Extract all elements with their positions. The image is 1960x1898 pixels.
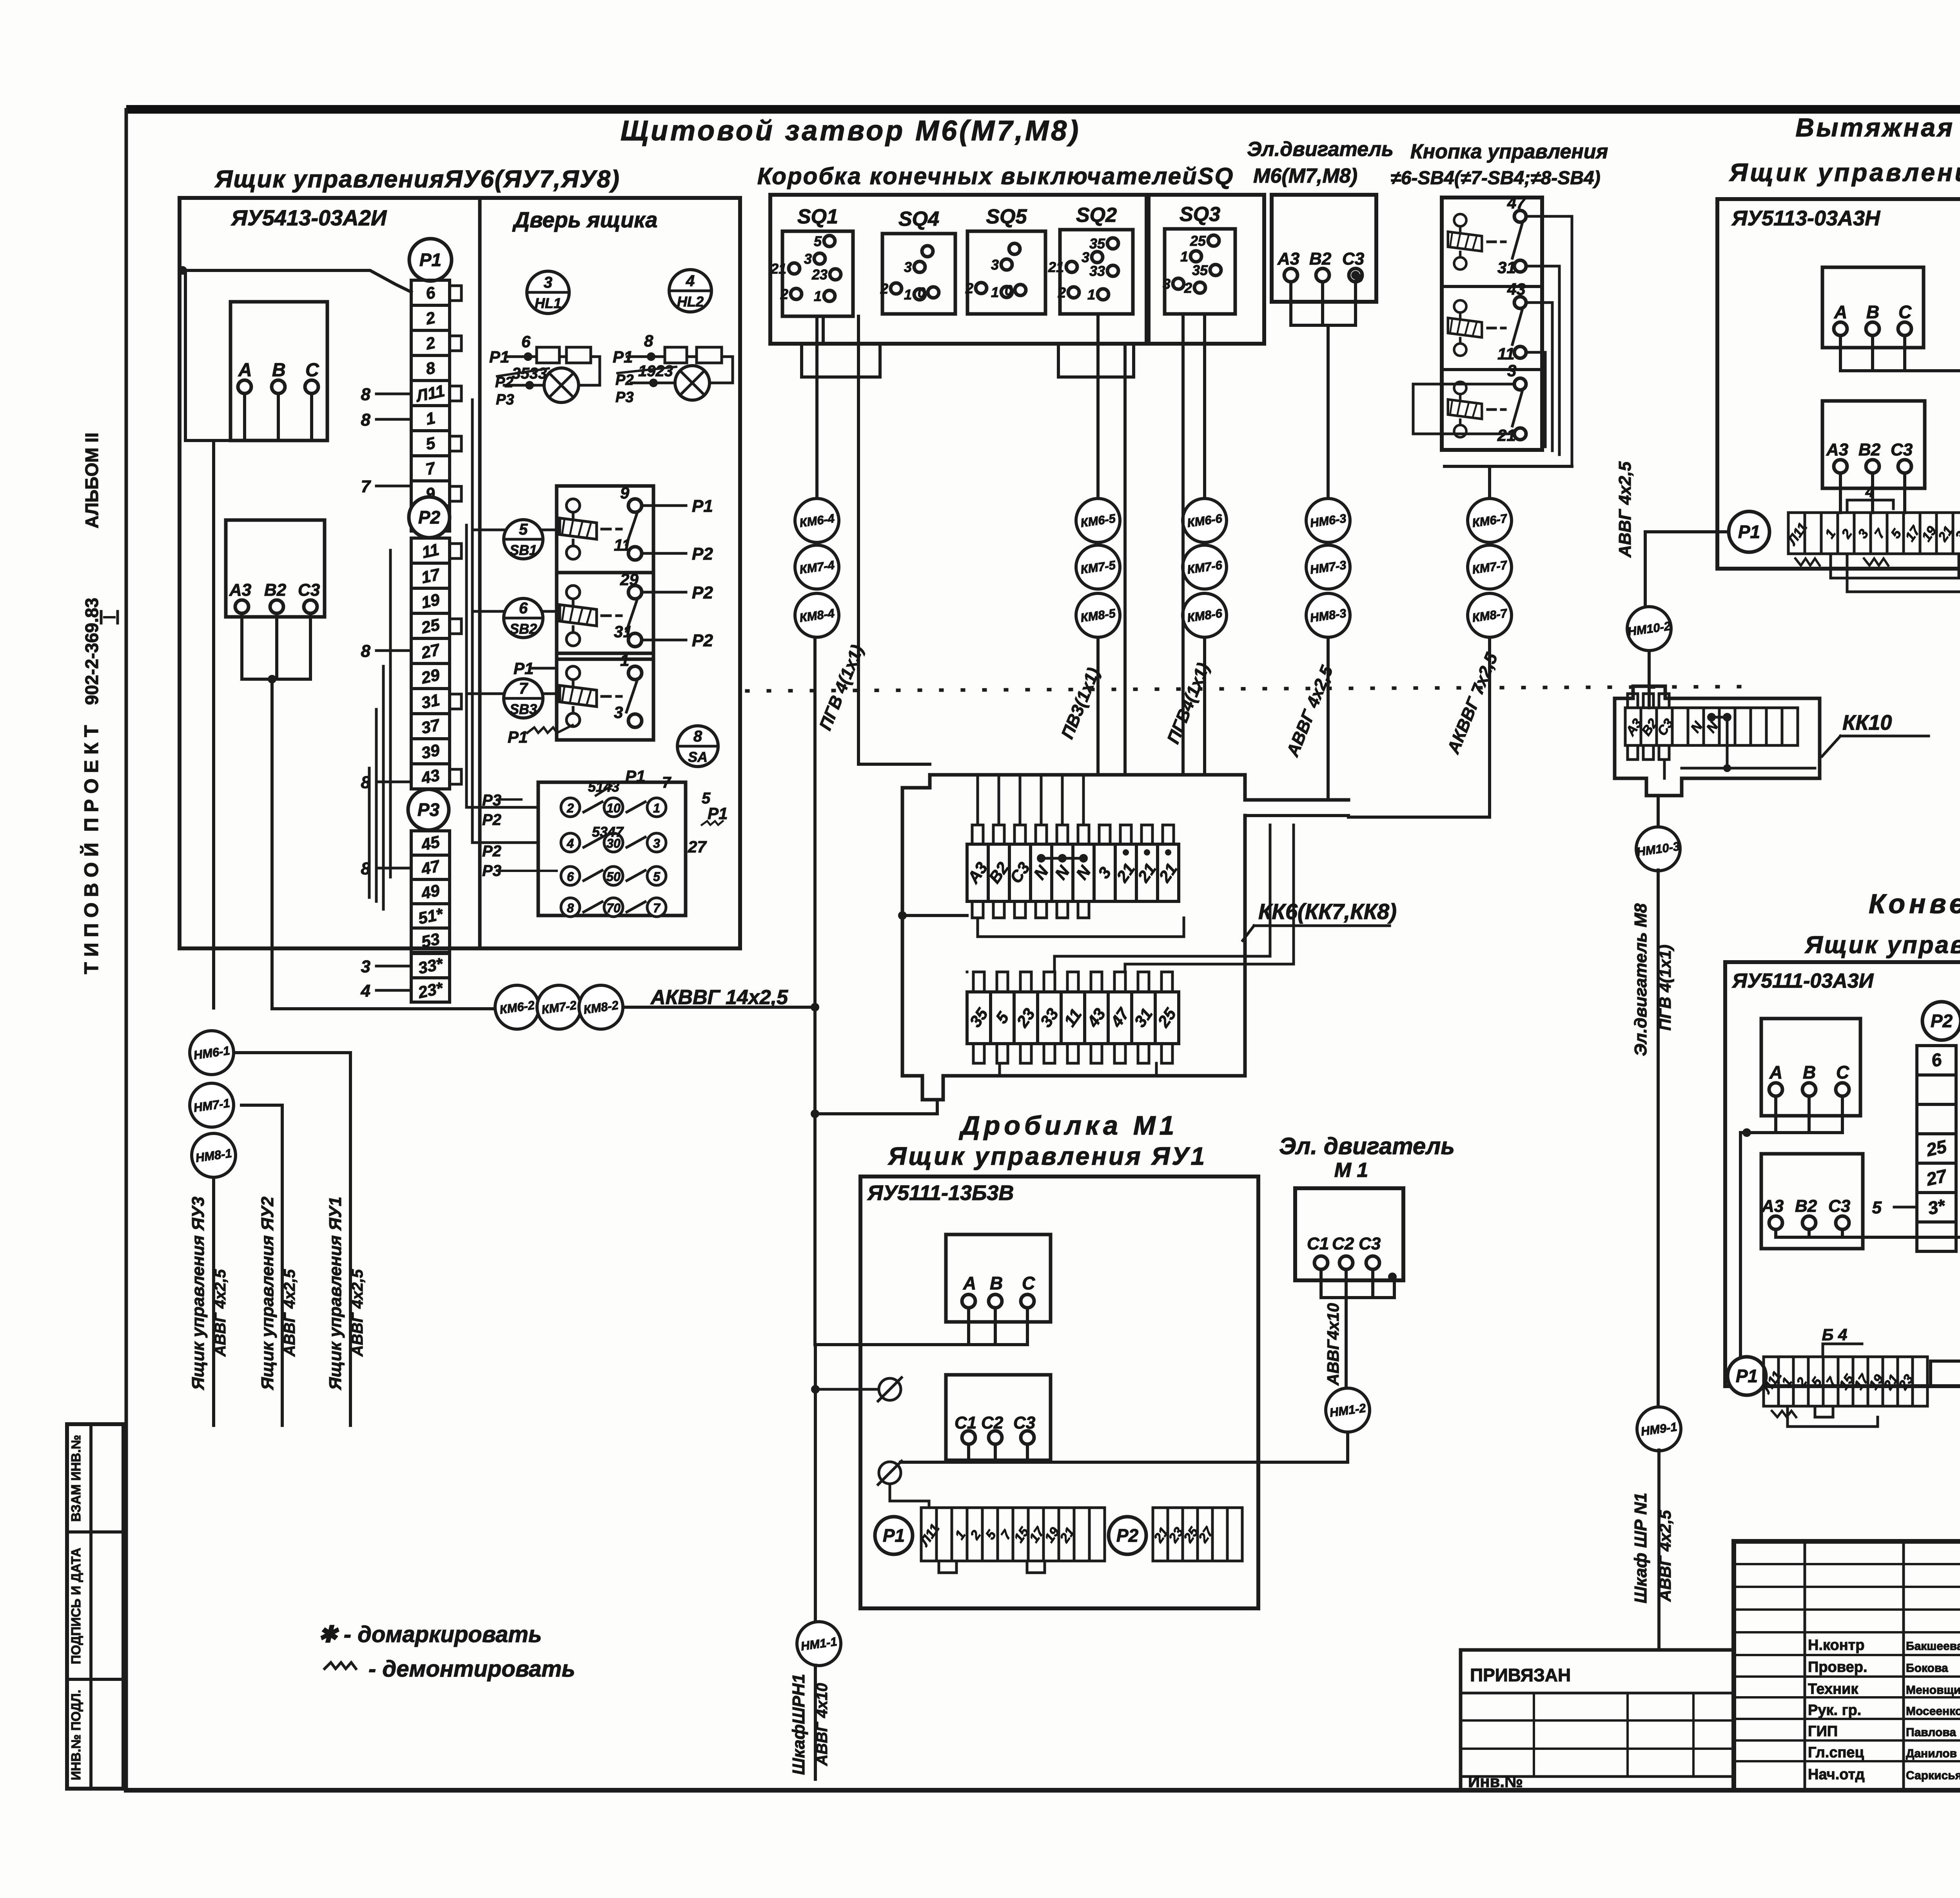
svg-text:ЯУ5113-03А3Н: ЯУ5113-03А3Н <box>1731 207 1880 230</box>
svg-text:2: 2 <box>1058 285 1066 301</box>
svg-text:Шкаф ШР N1: Шкаф ШР N1 <box>1631 1493 1650 1603</box>
svg-text:33: 33 <box>1089 263 1105 279</box>
svg-text:Р2: Р2 <box>418 507 441 528</box>
svg-text:Н.контр: Н.контр <box>1808 1637 1865 1653</box>
svg-text:4: 4 <box>1865 483 1874 500</box>
svg-text:1: 1 <box>653 801 660 815</box>
svg-text:3: 3 <box>991 257 999 273</box>
svg-text:8: 8 <box>361 642 371 661</box>
svg-text:ГИП: ГИП <box>1808 1723 1838 1740</box>
svg-text:Бокова: Бокова <box>1906 1662 1948 1675</box>
svg-text:Ящик управления ЯУ1: Ящик управления ЯУ1 <box>326 1196 345 1390</box>
svg-text:Щитовой затвор М6(М7,М8): Щитовой затвор М6(М7,М8) <box>621 115 1081 147</box>
svg-text:Эл.двигатель: Эл.двигатель <box>1247 138 1394 161</box>
svg-text:2: 2 <box>880 281 888 297</box>
svg-text:1: 1 <box>904 286 912 303</box>
svg-text:4: 4 <box>566 836 574 850</box>
svg-text:КК10: КК10 <box>1842 711 1892 734</box>
svg-text:9: 9 <box>620 484 630 502</box>
svg-text:3: 3 <box>1507 361 1516 380</box>
svg-text:1: 1 <box>1087 286 1095 303</box>
svg-text:7: 7 <box>653 901 661 915</box>
svg-text:7: 7 <box>662 774 671 791</box>
svg-text:1: 1 <box>620 651 629 669</box>
svg-text:50: 50 <box>606 870 621 884</box>
svg-text:Р3: Р3 <box>417 799 440 820</box>
svg-text:ПРИВЯЗАН: ПРИВЯЗАН <box>1470 1665 1571 1685</box>
svg-text:АВВГ 4х2,5: АВВГ 4х2,5 <box>1615 461 1635 558</box>
svg-text:Р1: Р1 <box>883 1525 905 1546</box>
svg-text:С2: С2 <box>981 1413 1004 1432</box>
svg-text:АВВГ 4х2,5: АВВГ 4х2,5 <box>212 1269 229 1357</box>
svg-text:SB3: SB3 <box>510 701 537 717</box>
svg-text:АВВГ4х10: АВВГ4х10 <box>1324 1303 1342 1386</box>
svg-text:1: 1 <box>1180 248 1188 265</box>
svg-text:Р2: Р2 <box>692 583 713 602</box>
svg-text:Р1: Р1 <box>1738 522 1760 542</box>
svg-text:HL1: HL1 <box>535 295 561 311</box>
svg-text:М6(М7,М8): М6(М7,М8) <box>1253 165 1357 187</box>
svg-text:43: 43 <box>1507 280 1526 298</box>
svg-text:Павлова: Павлова <box>1906 1726 1956 1739</box>
svg-text:8: 8 <box>361 385 371 404</box>
svg-text:Р1: Р1 <box>1736 1366 1758 1386</box>
svg-text:Вытяжная система В-1,М10: Вытяжная система В-1,М10 <box>1795 113 1960 142</box>
svg-text:Р1: Р1 <box>625 767 645 785</box>
svg-text:≠6-SB4(≠7-SB4;≠8-SB4): ≠6-SB4(≠7-SB4;≠8-SB4) <box>1390 168 1600 189</box>
svg-text:Р2: Р2 <box>615 372 633 388</box>
svg-text:ШкафШРН1: ШкафШРН1 <box>789 1674 808 1775</box>
svg-text:Инв.№: Инв.№ <box>1468 1772 1523 1791</box>
svg-text:1: 1 <box>991 284 999 300</box>
svg-text:Р2: Р2 <box>692 631 713 650</box>
svg-text:Р2: Р2 <box>1931 1011 1953 1031</box>
svg-text:11: 11 <box>614 536 631 554</box>
svg-text:29: 29 <box>620 570 639 589</box>
svg-text:Дробилка М1: Дробилка М1 <box>959 1111 1178 1140</box>
svg-text:АВВГ 4х2,5: АВВГ 4х2,5 <box>349 1269 366 1357</box>
svg-text:Ящик управления ЯУ1: Ящик управления ЯУ1 <box>887 1142 1207 1170</box>
svg-text:Рук. гр.: Рук. гр. <box>1808 1702 1861 1719</box>
svg-text:- демонтировать: - демонтировать <box>368 1656 575 1682</box>
svg-text:5: 5 <box>519 521 528 538</box>
svg-text:3: 3 <box>544 274 552 291</box>
svg-text:3: 3 <box>361 957 370 976</box>
svg-text:0: 0 <box>1005 282 1013 298</box>
svg-text:Коробка конечных выключателе: Коробка конечных выключателейSQ <box>757 163 1234 189</box>
svg-text:ЯУ5111-13Б3В: ЯУ5111-13Б3В <box>867 1181 1014 1205</box>
svg-text:31: 31 <box>614 622 632 641</box>
svg-text:А: А <box>1834 302 1847 322</box>
svg-text:Данилов: Данилов <box>1906 1747 1957 1760</box>
svg-text:В2: В2 <box>1309 249 1332 268</box>
svg-text:Дверь ящика: Дверь ящика <box>512 207 658 232</box>
svg-text:SQ5: SQ5 <box>986 205 1027 228</box>
svg-text:Р3: Р3 <box>496 392 514 408</box>
svg-text:27: 27 <box>688 838 707 856</box>
svg-text:ПГВ 4(1х1): ПГВ 4(1х1) <box>1656 944 1674 1030</box>
svg-text:С2: С2 <box>1332 1234 1354 1253</box>
svg-text:21: 21 <box>770 261 786 277</box>
svg-text:2: 2 <box>780 286 788 302</box>
svg-text:10: 10 <box>606 801 621 815</box>
svg-text:В2: В2 <box>1858 440 1881 459</box>
svg-text:Р3: Р3 <box>615 389 633 406</box>
svg-text:Мосеенко: Мосеенко <box>1906 1705 1960 1718</box>
svg-text:Бакшеева: Бакшеева <box>1906 1640 1960 1653</box>
svg-text:А3: А3 <box>1277 249 1299 268</box>
svg-text:В: В <box>272 360 286 381</box>
svg-text:ЯУ5413-03А2И: ЯУ5413-03А2И <box>230 205 387 230</box>
svg-text:23: 23 <box>811 266 828 283</box>
svg-text:С1: С1 <box>1307 1234 1329 1253</box>
svg-text:В: В <box>990 1273 1003 1293</box>
svg-text:3: 3 <box>804 251 812 267</box>
svg-text:2: 2 <box>1184 280 1192 296</box>
svg-text:3: 3 <box>614 703 623 721</box>
svg-text:2: 2 <box>566 801 574 815</box>
svg-text:53: 53 <box>419 930 441 952</box>
svg-text:Эл.двигатель М8: Эл.двигатель М8 <box>1631 903 1650 1056</box>
svg-text:С3: С3 <box>1891 440 1913 459</box>
svg-text:Ящик управленияЯУ6(ЯУ7,ЯУ8): Ящик управленияЯУ6(ЯУ7,ЯУ8) <box>214 166 620 193</box>
svg-text:5: 5 <box>814 233 822 249</box>
svg-text:1: 1 <box>814 288 822 304</box>
svg-text:0: 0 <box>918 285 926 301</box>
svg-text:Ящик управления ЯУ2: Ящик управления ЯУ2 <box>258 1196 277 1390</box>
svg-text:Кнопка управления: Кнопка управления <box>1410 140 1608 163</box>
svg-text:4: 4 <box>361 981 370 1001</box>
svg-text:5143: 5143 <box>588 779 619 795</box>
svg-text:Конвейер М9: Конвейер М9 <box>1869 888 1960 919</box>
svg-text:Р2: Р2 <box>692 544 713 564</box>
svg-text:КК6(КК7,КК8): КК6(КК7,КК8) <box>1258 899 1397 924</box>
svg-text:С: С <box>1898 302 1912 322</box>
svg-text:SB1: SB1 <box>510 542 537 558</box>
svg-text:21: 21 <box>1048 259 1064 275</box>
svg-text:3: 3 <box>1082 249 1089 265</box>
svg-text:С3: С3 <box>298 580 320 600</box>
svg-text:✱ - домаркировать: ✱ - домаркировать <box>318 1622 542 1647</box>
svg-text:В: В <box>1866 302 1879 322</box>
svg-text:АЛЬБОМ II: АЛЬБОМ II <box>82 433 102 529</box>
svg-text:2: 2 <box>965 280 973 296</box>
svg-text:А: А <box>238 360 252 381</box>
svg-text:М 1: М 1 <box>1334 1159 1368 1182</box>
svg-text:6: 6 <box>567 870 574 884</box>
svg-text:А3: А3 <box>1826 440 1848 459</box>
svg-text:5: 5 <box>1872 1198 1882 1217</box>
svg-text:С3: С3 <box>1013 1413 1035 1432</box>
svg-text:SA: SA <box>688 749 708 765</box>
svg-text:3: 3 <box>904 259 912 275</box>
svg-text:3: 3 <box>653 836 660 850</box>
svg-text:С3: С3 <box>1828 1196 1850 1216</box>
svg-text:ИНВ.№ ПОДЛ.: ИНВ.№ ПОДЛ. <box>69 1690 83 1780</box>
svg-text:25: 25 <box>1190 233 1206 249</box>
svg-text:АВВГ 4х2,5: АВВГ 4х2,5 <box>1656 1510 1674 1602</box>
svg-text:70: 70 <box>606 901 621 915</box>
svg-text:Меновщиков: Меновщиков <box>1906 1684 1960 1697</box>
svg-text:47: 47 <box>1507 194 1526 212</box>
svg-text:Т И П О В О Й П Р О Е К Т: Т И П О В О Й П Р О Е К Т <box>80 725 102 974</box>
svg-text:HL2: HL2 <box>677 294 704 310</box>
svg-text:902-2-369.83: 902-2-369.83 <box>82 598 102 705</box>
svg-text:5347: 5347 <box>592 824 624 840</box>
svg-text:А: А <box>1769 1062 1782 1082</box>
svg-text:Ящик управления ЯУ 10: Ящик управления ЯУ 10 <box>1729 158 1960 187</box>
svg-text:8: 8 <box>567 901 574 915</box>
svg-text:4: 4 <box>686 272 695 290</box>
svg-text:С1: С1 <box>955 1413 976 1432</box>
svg-text:АВВГ 4х2,5: АВВГ 4х2,5 <box>281 1269 298 1357</box>
svg-text:SQ2: SQ2 <box>1076 204 1117 227</box>
svg-text:35: 35 <box>1089 236 1105 252</box>
svg-text:А3: А3 <box>229 580 251 600</box>
svg-text:С3: С3 <box>1359 1234 1381 1253</box>
svg-text:Р2: Р2 <box>482 811 501 828</box>
svg-text:В2: В2 <box>264 580 287 600</box>
svg-text:SB2: SB2 <box>510 621 537 637</box>
svg-text:ЯУ5111-03А3И: ЯУ5111-03А3И <box>1731 970 1874 992</box>
svg-text:С: С <box>1022 1273 1035 1293</box>
svg-text:С: С <box>1836 1062 1849 1082</box>
svg-text:11: 11 <box>1497 344 1515 363</box>
svg-text:Провер.: Провер. <box>1808 1659 1867 1675</box>
svg-text:Саркисьянц: Саркисьянц <box>1906 1769 1960 1782</box>
svg-text:SQ3: SQ3 <box>1180 203 1220 226</box>
svg-text:SQ1: SQ1 <box>797 205 838 228</box>
svg-text:В2: В2 <box>1795 1196 1817 1216</box>
svg-text:Техник: Техник <box>1808 1681 1858 1697</box>
svg-text:В: В <box>1803 1062 1816 1082</box>
svg-text:Б 4: Б 4 <box>1822 1325 1847 1344</box>
svg-text:С: С <box>305 360 319 381</box>
svg-text:Ящик управления ЯУ3: Ящик управления ЯУ3 <box>189 1196 208 1390</box>
svg-text:АКВВГ 14х2,5: АКВВГ 14х2,5 <box>650 986 788 1009</box>
svg-text:С3: С3 <box>1342 249 1364 268</box>
svg-text:43: 43 <box>419 766 441 788</box>
svg-text:Эл. двигатель: Эл. двигатель <box>1279 1133 1455 1159</box>
svg-text:А3: А3 <box>1761 1196 1784 1216</box>
svg-text:Р1: Р1 <box>419 250 441 270</box>
svg-text:8: 8 <box>644 332 653 350</box>
svg-text:SQ4: SQ4 <box>898 208 939 230</box>
svg-text:5: 5 <box>653 870 661 884</box>
svg-text:31: 31 <box>1497 258 1516 277</box>
svg-text:Р1: Р1 <box>708 804 728 823</box>
svg-text:8: 8 <box>693 728 702 745</box>
svg-text:А: А <box>963 1273 976 1293</box>
svg-text:ПОДПИСЬ И ДАТА: ПОДПИСЬ И ДАТА <box>69 1548 83 1664</box>
svg-text:АВВГ 4х10: АВВГ 4х10 <box>813 1683 831 1766</box>
svg-text:7: 7 <box>361 477 372 496</box>
svg-text:Р2: Р2 <box>482 843 501 860</box>
svg-text:Р1: Р1 <box>508 728 528 746</box>
svg-text:Р1: Р1 <box>692 497 713 516</box>
svg-text:31: 31 <box>419 691 441 712</box>
svg-text:6: 6 <box>521 332 531 351</box>
svg-text:35: 35 <box>1192 262 1208 278</box>
svg-text:Р2: Р2 <box>1116 1525 1139 1546</box>
svg-text:3: 3 <box>1163 276 1171 292</box>
svg-text:7: 7 <box>519 680 528 697</box>
svg-text:ВЗАМ ИНВ.№: ВЗАМ ИНВ.№ <box>69 1435 83 1522</box>
svg-text:Гл.спец: Гл.спец <box>1808 1744 1864 1761</box>
svg-text:Нач.отд: Нач.отд <box>1808 1766 1865 1783</box>
svg-text:6: 6 <box>519 600 528 617</box>
svg-text:8: 8 <box>361 410 371 430</box>
svg-text:Ящик управления ЯУ9: Ящик управления ЯУ9 <box>1804 932 1960 959</box>
